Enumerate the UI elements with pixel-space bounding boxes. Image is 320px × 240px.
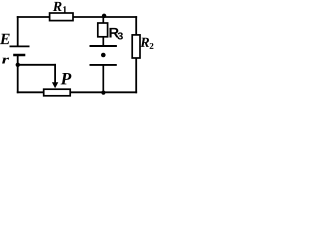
wire right xyxy=(135,16,137,93)
wiper arrowhead xyxy=(52,82,58,88)
label R2 sub2 xyxy=(150,43,154,49)
capacitor bottom plate xyxy=(90,64,117,66)
capacitor top plate xyxy=(90,45,117,47)
resistor R2 xyxy=(132,35,140,58)
wire tap horizontal xyxy=(18,64,56,66)
wire left lower xyxy=(17,55,19,93)
node battery tap xyxy=(16,63,20,67)
resistor R1 xyxy=(50,13,73,21)
battery long plate xyxy=(10,45,30,47)
wire plate to bottom xyxy=(102,65,104,92)
resistor R3 xyxy=(98,23,108,37)
wire R3 stub top xyxy=(102,16,104,24)
node bottom junction xyxy=(101,91,105,95)
label R3 R xyxy=(109,28,118,38)
label R1 R xyxy=(53,2,62,11)
wire left upper xyxy=(17,16,19,46)
label R2 R xyxy=(140,38,149,47)
label R3 sub3 xyxy=(117,32,122,39)
charged particle xyxy=(101,53,106,58)
wire top xyxy=(17,16,137,18)
potentiometer P xyxy=(44,89,70,96)
wire wiper shaft xyxy=(54,64,56,84)
label R1 sub1 xyxy=(63,6,67,13)
label P xyxy=(61,73,72,84)
battery short plate xyxy=(13,54,25,57)
node top junction xyxy=(102,14,106,18)
label r xyxy=(2,58,9,64)
wire bottom xyxy=(17,91,137,93)
label E xyxy=(0,34,10,44)
wire R3 to plate xyxy=(102,37,104,46)
